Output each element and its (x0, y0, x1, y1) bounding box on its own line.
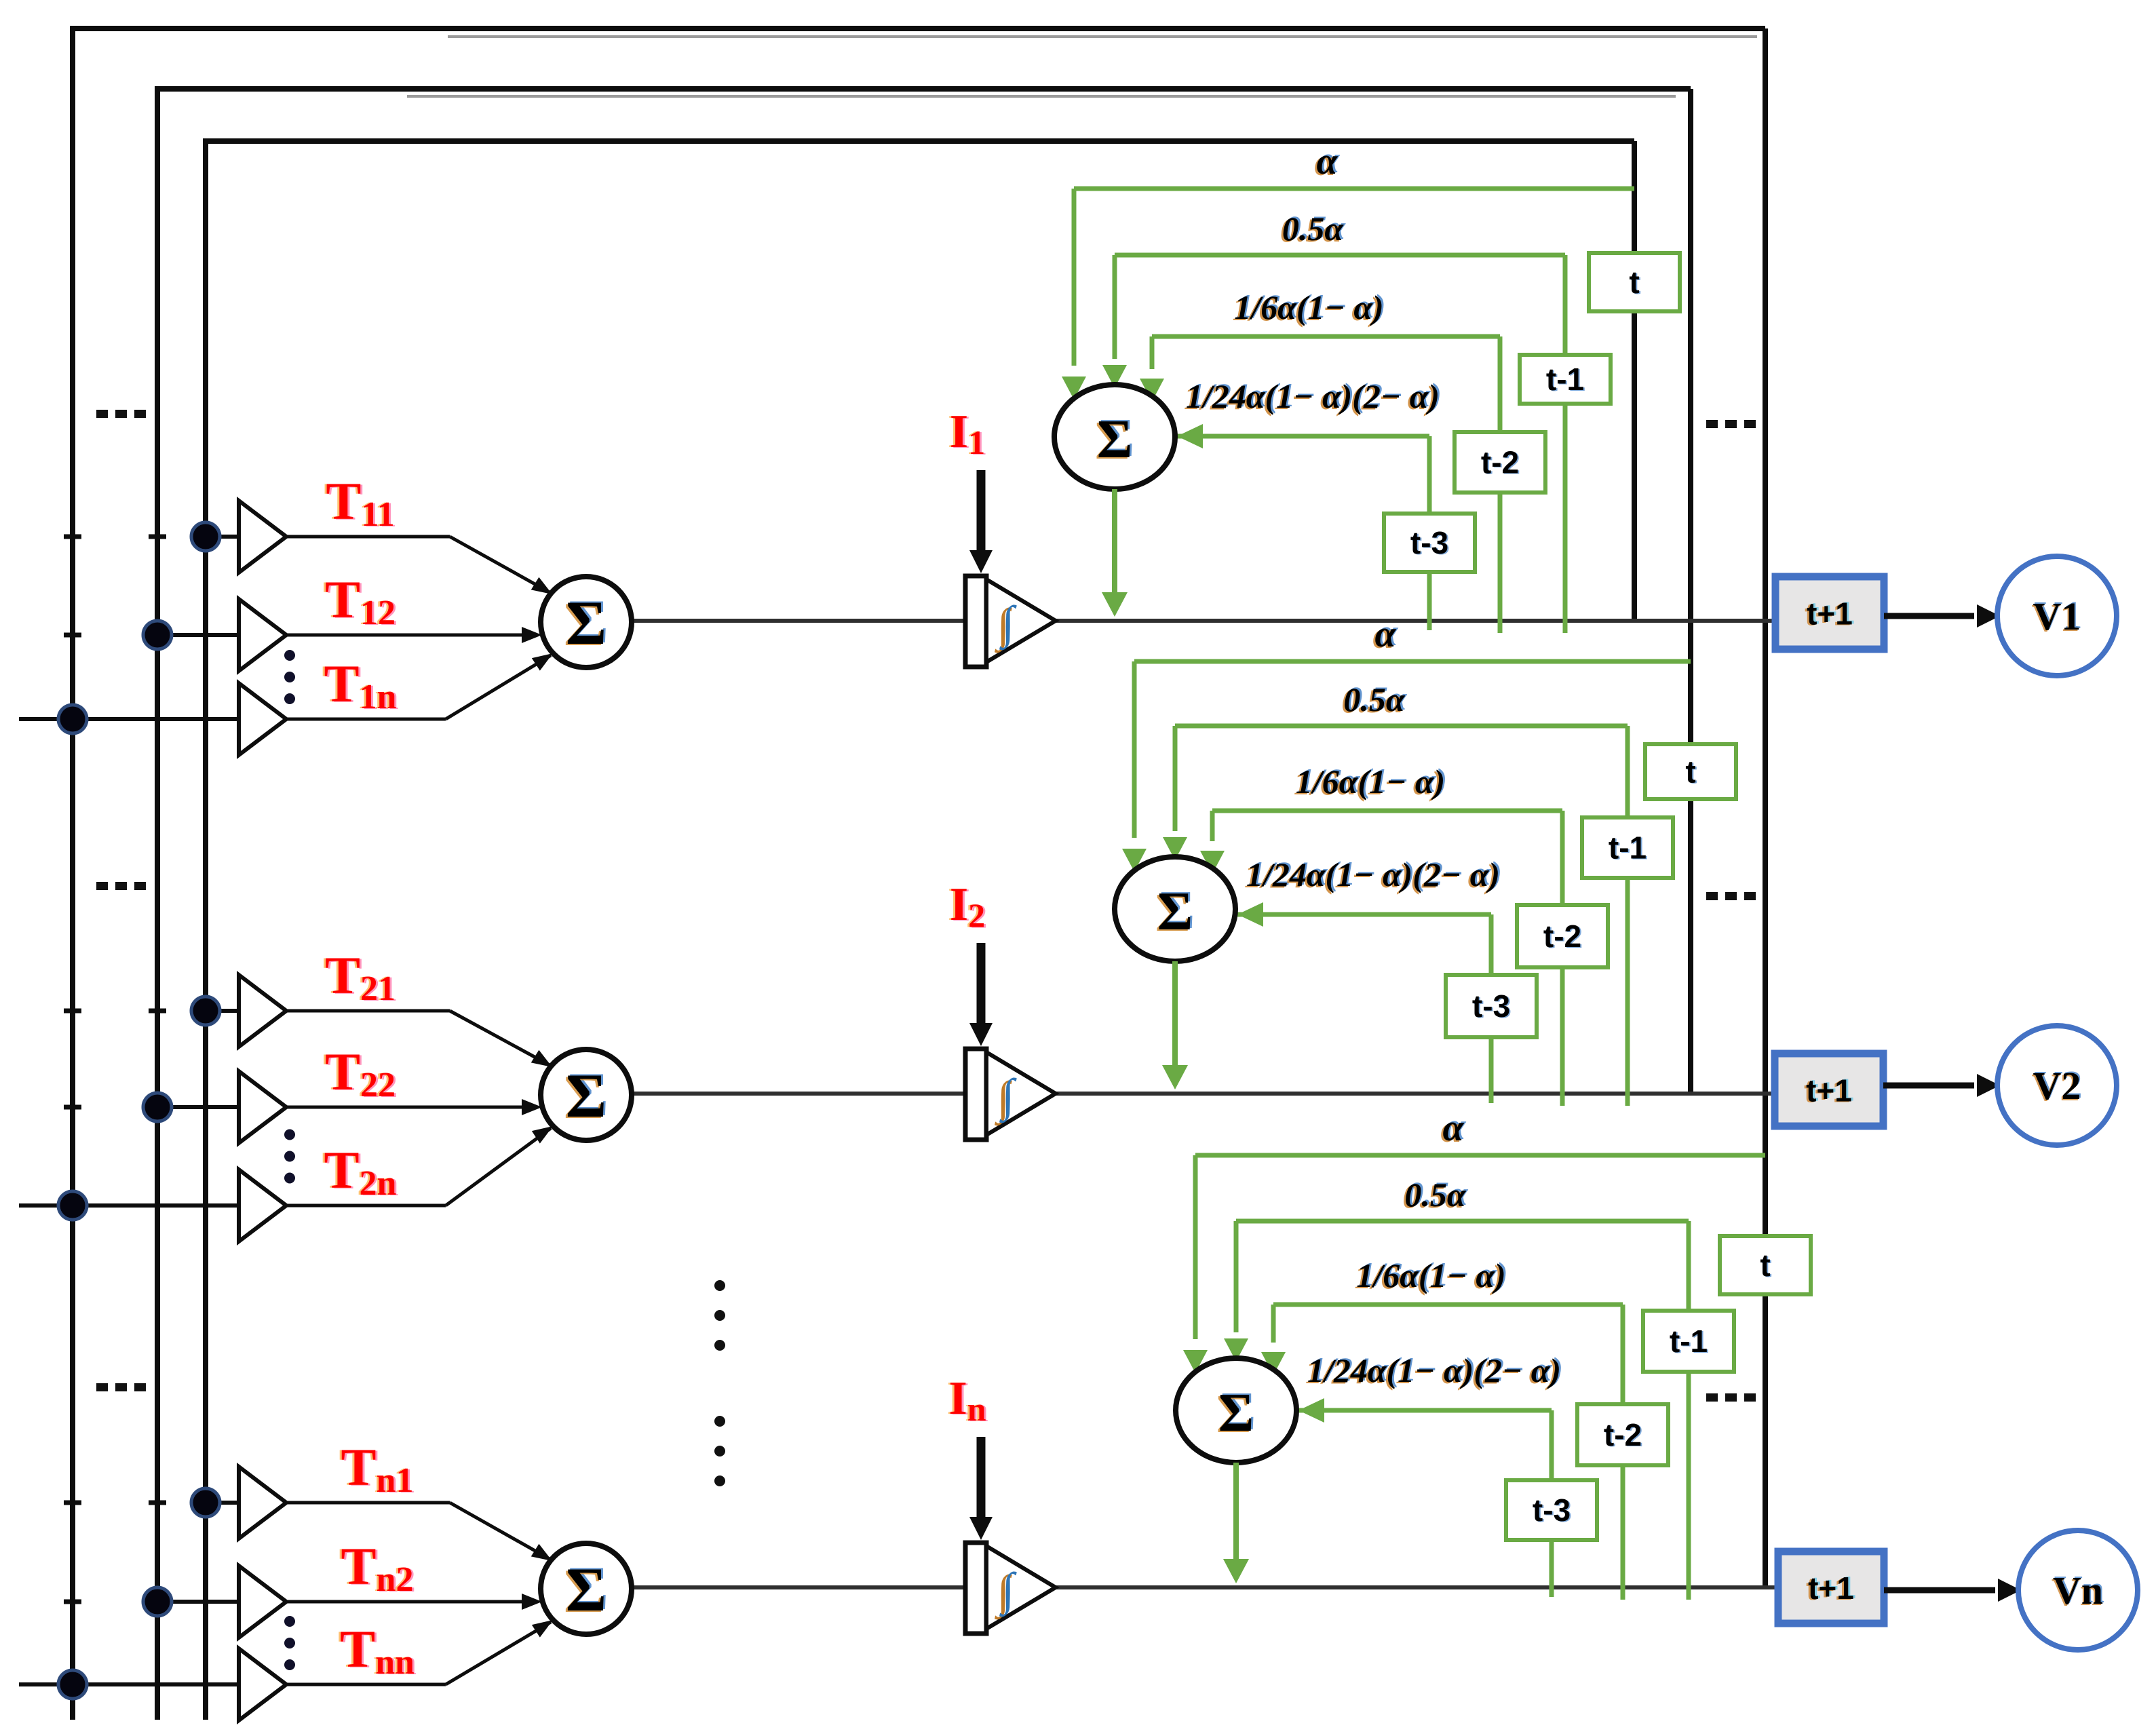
svg-text:α: α (1317, 140, 1339, 182)
svg-text:1/6α(1− α): 1/6α(1− α) (1296, 763, 1445, 801)
svg-text:t-2: t-2 (1604, 1417, 1642, 1452)
svg-text:t+1: t+1 (1806, 1073, 1852, 1108)
svg-text:Vn: Vn (2053, 1568, 2103, 1613)
svg-text:1/24α(1− α)(2− α): 1/24α(1− α)(2− α) (1246, 855, 1500, 893)
svg-text:t-3: t-3 (1533, 1492, 1571, 1528)
svg-text:1/6α(1− α): 1/6α(1− α) (1356, 1256, 1505, 1294)
svg-text:Σ: Σ (1097, 410, 1132, 469)
svg-text:Σ: Σ (566, 1555, 607, 1624)
svg-text:t-3: t-3 (1410, 525, 1448, 560)
svg-text:Σ: Σ (1157, 882, 1193, 942)
svg-text:1/24α(1− α)(2− α): 1/24α(1− α)(2− α) (1307, 1351, 1561, 1389)
svg-text:α: α (1375, 613, 1397, 655)
svg-text:t-1: t-1 (1670, 1324, 1708, 1359)
svg-text:V1: V1 (2033, 594, 2081, 638)
svg-text:1/24α(1− α)(2− α): 1/24α(1− α)(2− α) (1186, 377, 1440, 415)
svg-text:t: t (1629, 265, 1639, 300)
svg-text:t: t (1760, 1248, 1770, 1283)
svg-text:t-2: t-2 (1543, 919, 1581, 954)
svg-text:0.5α: 0.5α (1282, 210, 1345, 248)
svg-text:t-1: t-1 (1546, 362, 1584, 397)
svg-text:Σ: Σ (1218, 1383, 1254, 1443)
svg-text:0.5α: 0.5α (1404, 1176, 1467, 1214)
svg-text:0.5α: 0.5α (1343, 680, 1406, 718)
svg-text:V2: V2 (2033, 1064, 2081, 1108)
svg-text:t-3: t-3 (1472, 988, 1510, 1024)
svg-text:Σ: Σ (566, 1061, 607, 1130)
svg-text:α: α (1443, 1107, 1465, 1149)
svg-text:t+1: t+1 (1808, 1570, 1854, 1606)
svg-text:Σ: Σ (566, 588, 607, 657)
svg-text:1/6α(1− α): 1/6α(1− α) (1234, 288, 1383, 326)
svg-text:t: t (1685, 754, 1695, 790)
svg-text:t+1: t+1 (1807, 596, 1853, 632)
svg-text:t-2: t-2 (1481, 445, 1519, 480)
svg-text:t-1: t-1 (1609, 830, 1647, 866)
